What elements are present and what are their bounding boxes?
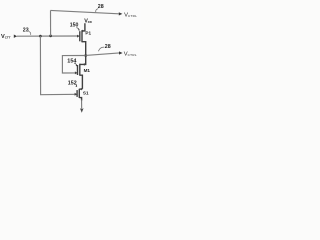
transistor P1 xyxy=(80,23,86,55)
wire node A down to S1 gate xyxy=(40,36,77,95)
ground arrow xyxy=(80,108,84,113)
svg-text:S1: S1 xyxy=(83,91,89,96)
node A junction xyxy=(39,35,42,38)
wire out mid to Vctrl xyxy=(86,53,120,56)
leader 28 mid xyxy=(98,47,104,51)
terminal Vctrl mid xyxy=(119,51,123,54)
pin arrow M1 drain xyxy=(83,63,85,66)
transistor S1 xyxy=(77,89,82,101)
svg-text:VCTRL: VCTRL xyxy=(124,12,137,18)
leader 23 xyxy=(28,31,30,35)
wire gate feedback box for M1 xyxy=(62,56,85,74)
pin arrow S1 gate xyxy=(75,93,77,96)
svg-text:23: 23 xyxy=(23,28,29,34)
svg-text:VCTT: VCTT xyxy=(1,34,11,40)
svg-text:VDD: VDD xyxy=(84,18,92,24)
svg-text:152: 152 xyxy=(68,80,77,86)
node B junction xyxy=(49,35,52,38)
svg-text:28: 28 xyxy=(105,44,111,50)
svg-text:28: 28 xyxy=(98,4,104,10)
leader 154 arrow xyxy=(74,63,77,66)
leader 150 arrow xyxy=(76,28,79,31)
wire input horizontal xyxy=(17,35,80,37)
pin arrow P1 source xyxy=(82,30,84,33)
pin arrow P1 gate xyxy=(77,35,79,38)
pin arrow S1 drain xyxy=(80,88,82,91)
wire top to Vctrl out xyxy=(51,10,119,13)
svg-text:P1: P1 xyxy=(85,31,91,36)
svg-text:M1: M1 xyxy=(84,68,91,73)
leader 152 arrow xyxy=(75,84,77,86)
node C junction xyxy=(84,54,87,57)
pin arrow M1 gate xyxy=(75,71,77,74)
wire node B up xyxy=(50,10,52,36)
ground wire stem xyxy=(81,100,83,109)
svg-text:VCTRL: VCTRL xyxy=(124,52,137,58)
terminal Vctrl top xyxy=(119,12,123,15)
leader 28 top xyxy=(96,9,98,13)
terminal Vctt xyxy=(14,35,17,38)
transistor M1 xyxy=(78,56,86,89)
